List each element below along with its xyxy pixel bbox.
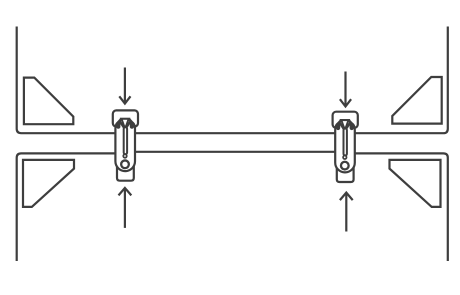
clip notch limb right	[126, 119, 129, 127]
clip head	[113, 110, 138, 126]
clip knob right	[130, 122, 134, 129]
clip knob right	[350, 123, 354, 130]
clip notch limb right	[346, 121, 349, 129]
bracket top-right	[392, 77, 441, 124]
rail top line	[134, 132, 337, 134]
clip slot dot	[343, 156, 347, 160]
bottom panel right edge	[355, 153, 448, 261]
clip notch limb left	[342, 121, 345, 129]
clip wing left	[118, 119, 121, 123]
top panel right edge	[355, 27, 448, 134]
clip notch white V	[342, 121, 348, 126]
clip notch limb left	[122, 119, 125, 127]
bracket top-left	[24, 78, 73, 125]
clip head	[333, 112, 358, 128]
bottom panel left edge	[17, 153, 116, 261]
clip lower cup	[337, 167, 354, 182]
clip knob left	[116, 122, 120, 129]
clip slot	[124, 127, 127, 154]
clip notch white V	[122, 120, 128, 125]
clip rivet ring	[341, 162, 349, 170]
clip wing left	[338, 120, 341, 124]
clip fastener right	[333, 112, 358, 182]
rail bottom line	[134, 151, 337, 153]
arrow down right	[340, 72, 351, 107]
clip rivet ring	[121, 160, 129, 168]
clip body	[335, 123, 355, 172]
bracket bottom-right	[390, 160, 441, 207]
arrow up left	[119, 188, 132, 228]
arrow down left	[119, 68, 130, 104]
arrow up right	[340, 193, 353, 232]
bracket bottom-left	[23, 160, 74, 207]
clip spring top bar	[340, 119, 350, 121]
clip fastener left	[113, 110, 138, 180]
clip wing right	[349, 120, 352, 124]
top panel left edge	[17, 27, 116, 134]
clip knob left	[336, 123, 340, 130]
clip lower cup	[117, 166, 134, 181]
clip slot dot	[123, 154, 127, 158]
clip wing right	[129, 119, 132, 123]
clip body	[115, 122, 135, 171]
clip spring top bar	[120, 118, 130, 120]
clip slot	[344, 129, 347, 156]
